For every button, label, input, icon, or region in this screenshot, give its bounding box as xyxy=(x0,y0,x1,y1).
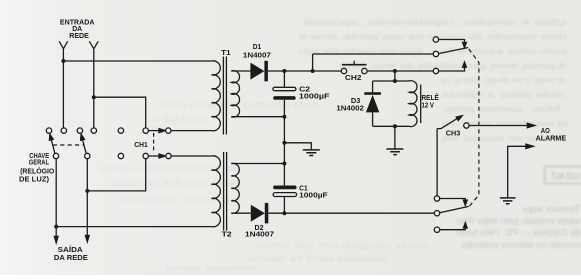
wire: CH3 contact to alarm output arrow xyxy=(469,125,527,127)
terminal: main switch pole1 mains-in contact xyxy=(61,128,66,133)
relay mechanical link (dashed) xyxy=(469,49,479,206)
svg-text:LUZ ALT: LUZ ALT xyxy=(551,171,580,181)
junction: input/T1 junction xyxy=(61,59,65,63)
relay contact set 2: bottom fixed contact xyxy=(440,227,466,230)
relay contact set 1: NO fixed contact xyxy=(439,66,465,71)
terminal: spare terminal bottom xyxy=(118,153,123,158)
svg-text:CH3: CH3 xyxy=(446,131,461,138)
junction: relay bottom/ground node xyxy=(393,124,397,128)
transformer T1 primary winding xyxy=(212,61,221,131)
terminal: CH1 top input contact xyxy=(143,128,148,133)
diode D2 1N4007 xyxy=(251,203,268,224)
svg-text:RELÊ: RELÊ xyxy=(421,93,439,102)
svg-text:C1: C1 xyxy=(299,185,308,192)
svg-text:SAÍDA: SAÍDA xyxy=(58,245,83,254)
wire: T2 secondary bottom to diode D2 xyxy=(231,212,251,214)
relay contact set 1: moving blade xyxy=(439,48,469,54)
svg-text:otisoqo obitnes: otisoqo obitnes xyxy=(120,194,240,204)
svg-text:ções e simples, rapidamente, a: ções e simples, rapidamente, aproveit xyxy=(302,17,567,27)
diode D3 1N4002 xyxy=(364,81,381,126)
wire: ground rail segment below C2 xyxy=(283,117,285,143)
svg-text:circuito os leitores poderão: circuito os leitores poderão xyxy=(462,240,581,250)
ground C xyxy=(500,198,516,204)
wire: T2 primary bottom to mains-output node xyxy=(56,226,211,228)
svg-text:D3: D3 xyxy=(351,98,361,105)
main switch pole 2: wire down and across to CH1 bottom contact xyxy=(87,159,145,191)
main switch blade 2 xyxy=(82,137,86,153)
terminal: main switch pole2 common xyxy=(85,153,90,158)
wire: negative output long run from D2/C1 to relay contact xyxy=(284,212,434,214)
relay coil xyxy=(373,81,421,127)
transformer T1 core xyxy=(223,57,226,135)
svg-text:Mas, vamos princ: Mas, vamos princ xyxy=(441,104,560,114)
svg-text:T2: T2 xyxy=(222,231,232,238)
svg-text:obaredoq seroil sa otiucrio: obaredoq seroil sa otiucrio xyxy=(248,253,388,263)
switch CH1 blade bottom xyxy=(148,155,159,157)
terminal: CH3 fixed contact xyxy=(464,123,469,128)
wire: left input down to switch contact xyxy=(62,61,64,128)
svg-text:Temos aqu: Temos aqu xyxy=(523,204,581,214)
svg-text:DE LUZ): DE LUZ) xyxy=(19,177,49,184)
svg-text:REDE: REDE xyxy=(69,33,89,40)
svg-text:de Carpina — PE. Pelo funci: de Carpina — PE. Pelo funci xyxy=(457,228,581,238)
junction: ground tee node xyxy=(282,141,286,145)
wire: CH2 to relay NO contact xyxy=(367,70,433,72)
ghost bleed-through text xyxy=(100,17,581,273)
switch CH1 mechanical link (dashed) xyxy=(153,133,155,154)
terminal: relay contact set1 NO xyxy=(433,68,438,73)
transformer T2 core xyxy=(224,152,227,231)
svg-text:GERAL: GERAL xyxy=(29,160,50,167)
svg-text:(RELÓGIO: (RELÓGIO xyxy=(20,166,55,175)
ground B xyxy=(386,149,403,155)
wire: alarm return lead from ground C xyxy=(508,146,526,197)
terminal: spare terminal top xyxy=(118,128,123,133)
svg-text:CH1: CH1 xyxy=(134,142,148,149)
junction: D1 output node xyxy=(282,69,286,73)
junction: T2-secondary-top node xyxy=(282,162,286,166)
terminal: main switch pole1 throw contact xyxy=(46,128,51,133)
wire: CH3 pivot down to relay contact set 2 xyxy=(436,129,438,196)
terminal: CH2 left xyxy=(341,68,346,73)
junction: D3/relay top node xyxy=(393,79,397,83)
wire: right input junction down to switch contact xyxy=(93,97,95,128)
svg-text:1N4002: 1N4002 xyxy=(336,105,364,112)
terminal: relay contact set2 bottom xyxy=(434,227,439,232)
svg-text:1000µF: 1000µF xyxy=(299,192,328,199)
svg-text:D1: D1 xyxy=(253,44,262,51)
wire: junction right to CH1 top fixed contact xyxy=(94,97,146,128)
junction: D2 output node xyxy=(282,211,286,215)
switch CH3 blade xyxy=(437,117,459,128)
switch CH1 blade top xyxy=(148,130,159,132)
transformer T1 secondary winding xyxy=(231,71,239,117)
pushbutton CH2 xyxy=(342,61,367,65)
capacitor C2 1000uF xyxy=(273,71,296,117)
svg-text:CH2: CH2 xyxy=(345,75,362,82)
terminal: relay contact set1 common xyxy=(433,51,438,56)
svg-text:já escolhidas antes um: já escolhidas antes um xyxy=(442,119,568,129)
svg-text:miut ed o: miut ed o xyxy=(152,114,205,124)
wire: relay block to ground B xyxy=(394,126,396,148)
transformer T2 secondary winding xyxy=(231,163,239,213)
svg-text:C2: C2 xyxy=(299,87,310,94)
svg-text:DA REDE: DA REDE xyxy=(54,255,88,262)
terminal: main switch pole2 mains-in contact xyxy=(91,128,96,133)
relay contact set 2: moving blade xyxy=(440,206,469,212)
svg-text:A ponta deve ser soldada de le: A ponta deve ser soldada de leve, sem xyxy=(340,61,567,71)
svg-text:ALARME: ALARME xyxy=(536,136,567,143)
wire: T1 secondary top to diode D1 xyxy=(231,70,250,72)
wire: mains input right terminal stem and fork xyxy=(89,41,98,97)
wire: D1 cathode to CH2 xyxy=(268,70,341,72)
junction: rail riser node xyxy=(311,69,315,73)
junction: CH2/relay-coil node xyxy=(393,69,397,73)
ground A xyxy=(303,150,320,156)
junction: C2/T1-secondary node xyxy=(282,115,286,119)
wire: D2 cathode to node xyxy=(268,212,284,214)
svg-text:onde adere a válvula: onde adere a válvula xyxy=(442,90,566,100)
wire: T2 secondary top lead xyxy=(231,163,284,165)
terminal: CH1 top output contact xyxy=(166,128,171,133)
terminal: CH2 right xyxy=(362,68,367,73)
mains output arrow 2 xyxy=(86,191,88,236)
wire: CH1 top output to T1 primary bottom xyxy=(171,130,212,132)
main switch pole 1: wire down to mains output xyxy=(55,159,57,227)
terminal: relay contact set2 common xyxy=(434,211,439,216)
wire: tee to ground symbol A xyxy=(284,143,311,150)
terminal: main switch pole1 common xyxy=(53,153,58,158)
diode D1 1N4007 xyxy=(250,61,268,82)
terminal: CH1 bottom output contact xyxy=(166,153,171,158)
junction: mains output node 2 xyxy=(85,189,89,193)
relay contact set 1: NC fixed contact xyxy=(439,40,465,44)
terminal: relay contact set2 top xyxy=(434,196,439,201)
wire: mains input left terminal stem and fork xyxy=(59,41,67,61)
svg-text:1N4007: 1N4007 xyxy=(245,232,274,239)
junction: input/CH1 junction xyxy=(92,95,96,99)
main switch mechanical link (dashed) xyxy=(53,144,84,146)
terminal: CH1 bottom input contact xyxy=(143,153,148,158)
terminal: main switch pole2 throw contact xyxy=(77,128,82,133)
junction: mains output node 1 xyxy=(54,225,58,229)
wire: top rail from input to T1 primary top xyxy=(63,60,211,62)
wire: CH1 bottom output to T2 primary top xyxy=(171,155,211,157)
terminal: relay contact set1 NC xyxy=(433,37,438,42)
svg-text:messaq sarod: messaq sarod xyxy=(164,263,255,273)
svg-text:1000µF: 1000µF xyxy=(299,94,330,101)
wire: stub down to relay coil block xyxy=(394,71,396,81)
wire: T1 secondary bottom to C2 node xyxy=(231,116,284,118)
relay contact set 2: top fixed contact xyxy=(440,199,466,202)
svg-text:12 V: 12 V xyxy=(421,103,434,110)
capacitor C1 1000uF xyxy=(273,164,297,214)
main switch blade 1 xyxy=(51,137,55,153)
svg-text:de modo a ser afixado com os c: de modo a ser afixado com os ca xyxy=(442,75,566,85)
svg-text:T1: T1 xyxy=(221,50,231,57)
transformer T2 primary winding xyxy=(212,156,221,227)
svg-text:AO: AO xyxy=(541,128,550,135)
svg-text:alsb augatum sa omit: alsb augatum sa omit xyxy=(254,240,430,250)
wire: ground rail to T2 secondary top xyxy=(283,143,285,164)
svg-text:sante enviado pelo leitor Pau: sante enviado pelo leitor Pau xyxy=(457,216,581,226)
mains output arrow 1 xyxy=(55,227,57,238)
wire: positive rail riser to relay common xyxy=(313,54,434,71)
svg-text:1N4007: 1N4007 xyxy=(243,52,271,59)
